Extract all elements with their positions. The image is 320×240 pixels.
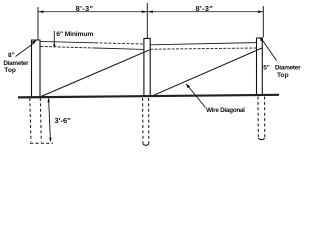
svg-text:Top: Top: [277, 72, 289, 79]
left post buried part (dashed): [30, 98, 31, 142]
right post (5 in) above ground: [257, 38, 263, 95]
svg-text:8'-3": 8'-3": [76, 4, 94, 13]
lower wire bay 2 (dashed): [150, 48, 256, 49]
svg-text:3'-6": 3'-6": [55, 116, 72, 125]
middle post above ground: [144, 38, 150, 96]
leader arrowhead at wire diagonal: [186, 83, 191, 88]
left post bottom cap (dashed): [30, 142, 53, 144]
middle post buried part (dashed): [142, 98, 144, 144]
dimension arrowhead left: [39, 10, 44, 13]
lower wire bay 1 right part (solid): [95, 48, 144, 49]
extension line left (x=38): [37, 7, 39, 40]
leader to right post top: [262, 40, 276, 61]
ground line: [18, 95, 279, 98]
top wire bay 1 left part (solid): [40, 41, 95, 42]
middle post bottom cap: [143, 144, 149, 145]
right post bottom cap: [258, 138, 265, 139]
burial depth arrowhead top: [47, 98, 49, 103]
burial depth arrowhead bottom: [49, 138, 51, 143]
burial depth dimension line 3'-6": [49, 99, 51, 139]
extension line middle (x=147.3): [146, 3, 148, 38]
svg-text:5": 5": [263, 64, 269, 71]
leader to left post top: [16, 42, 36, 56]
top wire bay 2: [150, 43, 256, 45]
leader arrowhead at right post top: [260, 37, 264, 42]
lower wire bay 1 left part (dashed): [41, 46, 96, 48]
dimension arrowhead right: [258, 10, 263, 13]
svg-text:6" Minimum: 6" Minimum: [56, 31, 93, 38]
leader arrowhead at left post top: [32, 40, 37, 45]
6 inch minimum arrow shaft: [53, 31, 55, 47]
wire diagonal bay 2: [151, 48, 262, 96]
dimension arrowhead mid-left: [142, 10, 147, 13]
svg-text:Diameter: Diameter: [275, 64, 301, 71]
right post buried part (dashed): [257, 97, 259, 138]
svg-text:Wire Diagonal: Wire Diagonal: [206, 107, 245, 114]
leader to wire diagonal: [188, 86, 206, 108]
extension line right (x=263.3): [262, 6, 264, 38]
svg-text:8'-3": 8'-3": [195, 4, 213, 13]
svg-text:Diameter: Diameter: [3, 60, 29, 67]
dimension line y=11.7: [38, 11, 263, 13]
svg-text:8": 8": [8, 52, 15, 59]
wire diagonal bay 1: [41, 50, 150, 97]
svg-text:Top: Top: [4, 67, 16, 74]
6 inch minimum arrowhead: [53, 42, 55, 46]
top wire bay 1 right part (dashed): [95, 43, 144, 44]
left post (8 in corner post) above ground: [32, 40, 41, 97]
dimension arrowhead mid-right: [148, 10, 153, 13]
